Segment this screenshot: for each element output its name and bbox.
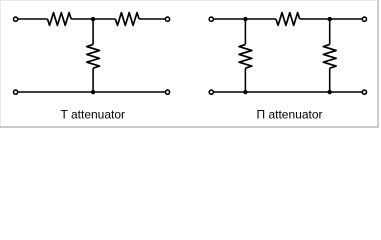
- svg-text:Π attenuator: Π attenuator: [256, 108, 322, 122]
- svg-text:T attenuator: T attenuator: [61, 108, 126, 122]
